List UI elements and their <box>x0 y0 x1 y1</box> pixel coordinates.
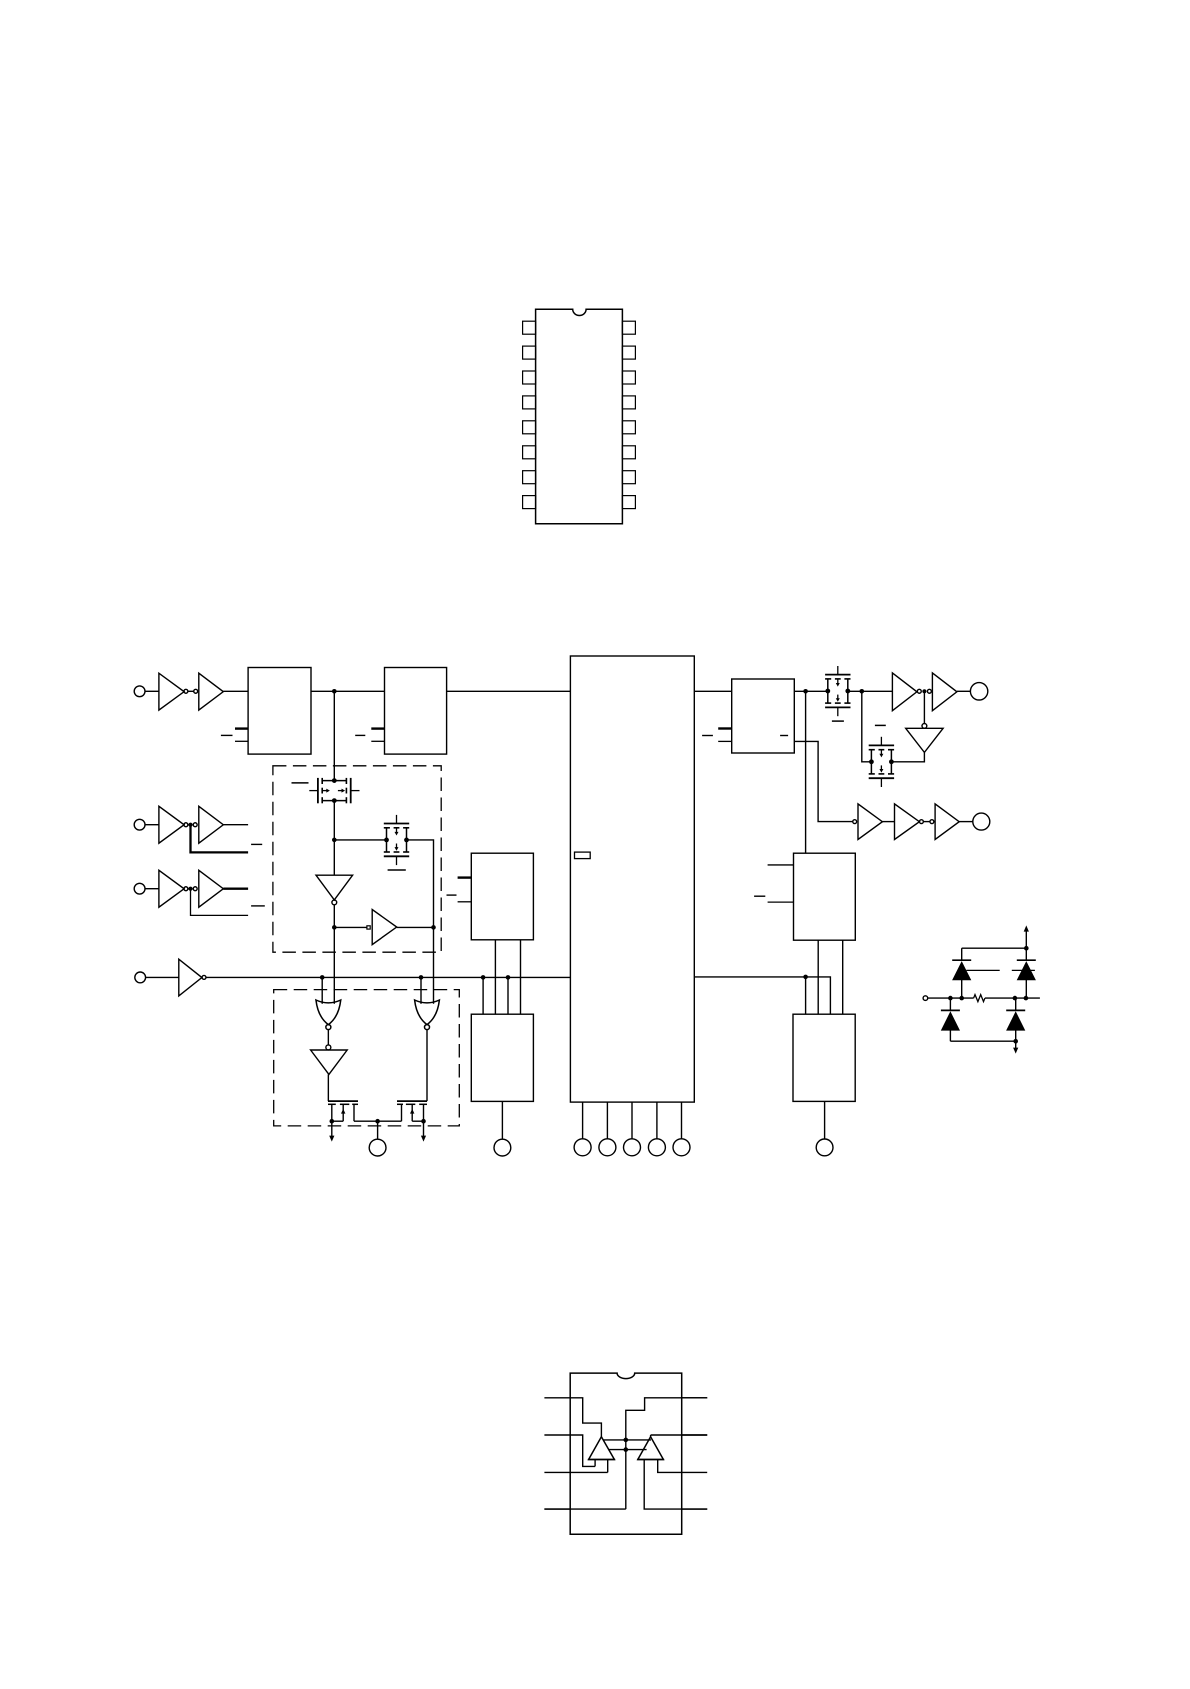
wire G5 down <box>333 905 335 1004</box>
AMP1 right foot to pin3 <box>607 1460 609 1473</box>
transmission gate TG4 <box>869 737 894 787</box>
node n6 <box>332 925 337 930</box>
wire G9 out <box>426 1029 428 1101</box>
wire G12 to TG4 <box>891 752 924 761</box>
wire G4 to U2 <box>206 976 570 978</box>
buffer G6 <box>372 910 397 945</box>
wire n3 tap <box>191 889 249 916</box>
wire <box>882 821 894 823</box>
transmission gate TG1 <box>309 778 359 803</box>
node d3 <box>1013 996 1018 1001</box>
node n4b <box>419 975 424 980</box>
U1 pin 2 (left) <box>523 346 536 359</box>
wire n11 down <box>805 977 807 1014</box>
block B1 pin <box>458 901 472 903</box>
square marker G6 in <box>367 926 370 929</box>
U1 pin 5 (left) <box>523 421 536 434</box>
bubble G8 in <box>326 1045 331 1050</box>
block C1 <box>732 679 795 753</box>
bubble G1a out <box>184 689 188 693</box>
main block U2 <box>570 656 694 1102</box>
wire B1 to B2 a <box>494 940 496 1014</box>
TG1 gate dash <box>292 782 309 784</box>
wire C1 out <box>794 690 828 692</box>
U1 pin 1 (left) <box>523 321 536 334</box>
wire TG3 to G10 <box>848 690 892 692</box>
label dash <box>251 905 265 907</box>
wire <box>928 997 951 999</box>
wire C2 to C3 a <box>817 940 819 1014</box>
node m2 <box>624 1447 629 1452</box>
U1 pin 10 (right) <box>622 471 635 484</box>
U1 pin 12 (right) <box>622 421 635 434</box>
wire TG1 to n5 <box>333 801 335 840</box>
wire B1 to B2 b <box>520 940 522 1014</box>
block C2 pin b <box>768 901 794 903</box>
buffer G1b <box>199 673 224 710</box>
wire pin3 inside <box>570 1471 608 1473</box>
amplifier AMP2 <box>637 1437 664 1460</box>
wire <box>146 976 179 978</box>
U1 pin 7 (left) <box>523 471 536 484</box>
buffer G10 <box>892 673 917 711</box>
wire n6 to G6 <box>334 926 367 928</box>
MOSFET pair Q1 (left) <box>328 1101 378 1121</box>
wire n11 right-down <box>806 977 831 1014</box>
wire A1-A2 <box>311 690 385 692</box>
diode D3 (lower left) <box>941 998 960 1041</box>
node d2 <box>959 996 964 1001</box>
bubble G2b in <box>193 823 197 827</box>
inverter G5 (down) <box>333 840 335 875</box>
inverter G8 (down) <box>311 1050 348 1074</box>
ground arrow (right) <box>423 1121 425 1136</box>
bubble G12 in <box>922 724 927 729</box>
TG4 top dash <box>875 724 886 726</box>
U1 pin 9 (right) <box>622 496 635 509</box>
output terminal P14 <box>816 1139 833 1156</box>
bubble G4 out <box>202 975 206 979</box>
wire G3b out (bold) <box>223 888 248 890</box>
U3 pin 8 wire (right) <box>682 1397 708 1399</box>
U1 pin 15 (right) <box>622 346 635 359</box>
wire pin4 inside <box>544 1508 625 1510</box>
node d5 <box>1024 946 1029 951</box>
label dash <box>355 734 365 736</box>
label dash <box>447 894 457 896</box>
terminal P7 <box>574 1139 591 1156</box>
wire U2 bottom pin 2 <box>606 1102 608 1139</box>
block C1 clock pin (bold) <box>718 727 732 729</box>
U1 pin 16 (right) <box>622 321 635 334</box>
buffer G15 <box>935 804 959 840</box>
AMP1 left foot <box>594 1460 596 1467</box>
diode D4 (lower right) <box>1006 998 1025 1041</box>
label dash <box>221 734 233 736</box>
node m1 <box>624 1438 629 1443</box>
bubble G13 in <box>853 820 857 824</box>
TG2 bottom dash <box>388 869 406 871</box>
wire G2b out <box>223 824 248 826</box>
U1 pin 3 (left) <box>523 371 536 384</box>
wire U2 bottom pin 1 <box>582 1102 584 1139</box>
wire U2 bottom pin 3 <box>631 1102 633 1139</box>
label dash <box>702 735 713 737</box>
node n9 <box>860 689 865 694</box>
output terminal P5 <box>369 1139 386 1156</box>
wire to output terminal <box>377 1121 379 1139</box>
inverter G1a <box>159 673 184 710</box>
wire n5 to TG2 <box>334 839 386 841</box>
NOR gate G7 <box>316 1000 341 1030</box>
input terminal P3 <box>134 883 145 894</box>
U1 pin 14 (right) <box>622 371 635 384</box>
bubble G3b in <box>193 887 197 891</box>
U3 pin 5 wire (right) <box>682 1508 708 1510</box>
bubble G11 in <box>927 689 931 693</box>
mid dash a <box>966 969 999 971</box>
bubble G14 out <box>919 820 923 824</box>
wire G7 out <box>327 1029 329 1045</box>
wire n7 down to NOR2 <box>433 927 435 1003</box>
AMP2 left foot to pin5 rail <box>644 1460 707 1510</box>
U3 pin 3 wire (left) <box>544 1471 570 1473</box>
U3 pin 6 wire (right) <box>682 1471 708 1473</box>
wire n4a to NOR1 <box>321 977 323 1003</box>
wire U2 bottom pin 4 <box>656 1102 658 1139</box>
U3 pin 7 wire (right) <box>682 1434 708 1436</box>
wire G11 out <box>957 690 971 692</box>
input terminal P4 <box>135 972 146 983</box>
buffer G3b <box>199 870 224 907</box>
wire n4b to NOR2 <box>420 977 422 1003</box>
wire <box>145 824 159 826</box>
wire n2 tap (bold) <box>191 825 249 853</box>
label dash <box>754 895 765 897</box>
block C1 pin <box>718 740 732 742</box>
wire <box>145 888 159 890</box>
IC package U1 (DIP-16 outline, top view) <box>536 309 623 523</box>
block C2 <box>794 853 856 940</box>
terminal P8 <box>599 1139 616 1156</box>
node d4 <box>1024 996 1029 1001</box>
label dash <box>251 843 262 845</box>
wire C3 to terminal <box>824 1101 826 1139</box>
node n4a <box>320 975 325 980</box>
wire C2 to C3 b <box>842 940 844 1014</box>
block C2 pin a <box>768 864 794 866</box>
U3 pin 4 wire (left) <box>544 1508 570 1510</box>
node n10 <box>922 689 926 693</box>
amplifier AMP1 <box>588 1437 615 1460</box>
wire G8 out <box>327 1074 329 1101</box>
block A2 <box>385 668 447 755</box>
wire <box>985 997 1040 999</box>
block B1 clock pin (bold) <box>458 876 472 878</box>
wire U2 to C1 <box>694 690 731 692</box>
inverter G4 <box>179 959 202 996</box>
node n5 <box>332 838 337 843</box>
U3 pin 1 wire (left) <box>544 1397 570 1399</box>
dashed enclosure DB1 <box>273 766 441 952</box>
U3 pin 2 wire (left) <box>544 1434 570 1436</box>
NOR gate G9 <box>415 1000 440 1030</box>
cross link upper <box>603 1439 651 1441</box>
node n3 <box>188 887 192 891</box>
buffer G14 <box>895 804 920 840</box>
wire TG4 left to n9 <box>862 691 872 762</box>
AMP2 right foot to pin6 <box>658 1460 682 1473</box>
bubble G10 out <box>917 689 921 693</box>
node n4c <box>481 975 486 980</box>
output terminal P12 <box>970 683 987 700</box>
inverter G2a <box>159 806 184 843</box>
terminal P9 <box>624 1139 641 1156</box>
U1 pin 8 (left) <box>523 496 536 509</box>
wire <box>950 997 973 999</box>
MOSFET pair Q2 (right) <box>378 1101 427 1121</box>
wire A2 to U2 <box>447 690 571 692</box>
wire n8 down to C2 <box>805 691 807 853</box>
node q-out <box>375 1119 380 1124</box>
U1 pin 11 (right) <box>622 446 635 459</box>
block A1 clock pin (bold) <box>235 727 248 729</box>
wire pin7 to amp2 apex <box>651 1434 708 1436</box>
wire n10 down <box>923 691 925 723</box>
dashed enclosure DB2 <box>274 990 460 1126</box>
cross link lower <box>608 1449 646 1451</box>
input terminal P15 <box>923 996 928 1001</box>
VDD rail wire <box>962 947 1027 949</box>
transmission gate TG2 <box>384 815 409 865</box>
label dash (inner) <box>780 735 788 737</box>
inverter G12 (down) <box>906 728 943 752</box>
U1 pin 4 (left) <box>523 396 536 409</box>
wire pin1 to amp1 apex <box>570 1398 601 1437</box>
wire U2 right to n11 <box>694 976 805 978</box>
output terminal P13 <box>973 813 990 830</box>
bubble G15 in <box>930 820 934 824</box>
node n4d <box>506 975 511 980</box>
bubble G5 out <box>332 900 337 905</box>
block A2 clock pin (bold) <box>371 727 384 729</box>
mid dash b <box>1012 969 1035 971</box>
VSS arrow <box>1015 1041 1017 1048</box>
wire B2 to terminal <box>501 1101 503 1139</box>
input terminal P2 <box>134 819 145 830</box>
bubble G1b in <box>194 689 198 693</box>
wire n4c to B2 <box>482 977 484 1014</box>
TG3 bottom dash <box>832 720 844 722</box>
node n8 <box>803 689 808 694</box>
node n2 <box>188 823 192 827</box>
resistor R1 <box>974 995 985 1002</box>
diode D2 (upper right) <box>1017 948 1036 998</box>
node d1 <box>948 996 953 1001</box>
wire TG2 right <box>407 840 434 928</box>
node d6 <box>1013 1039 1018 1044</box>
block A1 pin <box>235 740 248 742</box>
block B2 <box>471 1014 533 1101</box>
node q2s <box>421 1119 426 1124</box>
bubble G2a out <box>184 823 188 827</box>
wire <box>188 690 194 692</box>
wire pin2 to amp1 left foot <box>570 1435 595 1466</box>
U1 pin 13 (right) <box>622 396 635 409</box>
wire U2 bottom pin 5 <box>681 1102 683 1139</box>
node n7 <box>431 925 436 930</box>
block C3 <box>793 1014 855 1101</box>
ground arrow (left) <box>331 1121 333 1136</box>
VSS rail wire <box>950 1040 1015 1042</box>
node n1 <box>332 689 337 694</box>
transmission gate TG3 <box>825 666 850 716</box>
diode D1 (upper left) <box>952 948 971 998</box>
buffer G11 <box>932 673 957 711</box>
wire G6 out <box>397 926 434 928</box>
buffer G13 <box>858 804 882 840</box>
terminal P10 <box>648 1139 665 1156</box>
node q1s <box>330 1119 335 1124</box>
wire <box>923 821 930 823</box>
wire <box>145 690 159 692</box>
node n11 <box>803 975 808 980</box>
wire pin8 to center rail <box>626 1398 707 1509</box>
bubble G3a out <box>184 887 188 891</box>
buffer G2b <box>199 806 224 843</box>
U1 pin 6 (left) <box>523 446 536 459</box>
U2 marker rectangle <box>575 852 591 859</box>
IC package U3 outline <box>570 1373 682 1534</box>
wire n4d to B2 <box>507 977 509 1014</box>
block A2 pin <box>371 740 384 742</box>
input terminal P1 <box>134 686 145 697</box>
terminal P11 <box>673 1139 690 1156</box>
wire n1 down to TG1 <box>333 691 335 780</box>
block A1 <box>248 668 311 755</box>
wire G15 out <box>959 821 973 823</box>
block B1 <box>471 853 533 940</box>
inverter G3a <box>159 870 184 907</box>
output terminal P6 <box>494 1139 511 1156</box>
wire C1 pin to G13 chain <box>794 741 853 821</box>
VDD arrow <box>1025 931 1027 948</box>
wire <box>223 690 248 692</box>
